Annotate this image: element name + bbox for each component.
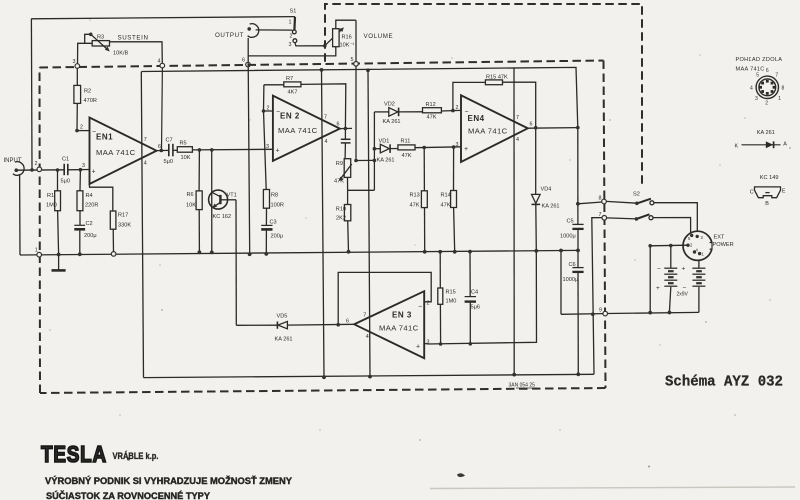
svg-text:VÝROBNÝ PODNIK SI VYHRADZUJE M: VÝROBNÝ PODNIK SI VYHRADZUJE MOŽNOSŤ ZME… xyxy=(45,475,292,486)
svg-text:4: 4 xyxy=(158,59,161,65)
svg-text:6: 6 xyxy=(158,144,161,150)
svg-text:C3: C3 xyxy=(270,220,277,226)
svg-text:47K: 47K xyxy=(427,115,437,121)
svg-text:7: 7 xyxy=(144,137,147,143)
svg-text:9: 9 xyxy=(599,308,602,314)
svg-text:330K: 330K xyxy=(118,223,131,229)
svg-text:R14: R14 xyxy=(441,193,451,199)
svg-text:C4: C4 xyxy=(471,290,478,296)
svg-text:6: 6 xyxy=(337,122,340,128)
svg-text:MAA 741C: MAA 741C xyxy=(379,324,419,333)
svg-text:+: + xyxy=(656,285,660,292)
svg-text:R11: R11 xyxy=(401,139,411,145)
svg-text:1M0: 1M0 xyxy=(46,203,57,209)
svg-text:47K: 47K xyxy=(402,153,412,159)
svg-text:KA 261: KA 261 xyxy=(757,130,775,136)
svg-text:7: 7 xyxy=(324,115,327,121)
svg-text:6: 6 xyxy=(346,319,349,325)
svg-text:OUTPUT: OUTPUT xyxy=(215,32,244,39)
svg-text:3: 3 xyxy=(289,42,292,48)
svg-text:3: 3 xyxy=(73,59,76,65)
svg-text:7: 7 xyxy=(775,72,778,78)
svg-text:KA 261: KA 261 xyxy=(383,119,401,125)
svg-text:R6: R6 xyxy=(187,192,194,198)
svg-text:POWER: POWER xyxy=(713,242,734,248)
svg-text:2: 2 xyxy=(765,100,768,106)
svg-text:−: − xyxy=(465,109,469,116)
svg-text:VD1: VD1 xyxy=(379,139,390,145)
svg-text:−: − xyxy=(418,304,422,311)
svg-text:10K⁻¹: 10K⁻¹ xyxy=(340,43,355,49)
svg-text:2: 2 xyxy=(427,301,430,307)
svg-text:EXT: EXT xyxy=(714,235,725,241)
svg-text:7: 7 xyxy=(363,313,366,319)
svg-text:R10: R10 xyxy=(336,207,346,213)
svg-text:2: 2 xyxy=(456,105,459,111)
svg-text:R15: R15 xyxy=(446,290,456,296)
svg-text:VD4: VD4 xyxy=(541,187,552,193)
svg-text:MAA 741C: MAA 741C xyxy=(278,126,318,135)
svg-text:200μ: 200μ xyxy=(84,233,97,239)
svg-text:200μ: 200μ xyxy=(271,234,284,240)
svg-text:R3: R3 xyxy=(97,35,104,41)
svg-text:4: 4 xyxy=(325,139,328,145)
svg-text:R15 47K: R15 47K xyxy=(486,75,508,81)
svg-text:E: E xyxy=(782,188,786,194)
svg-text:KA 261: KA 261 xyxy=(275,337,293,343)
svg-text:R13: R13 xyxy=(410,193,420,199)
svg-text:8: 8 xyxy=(599,196,602,202)
svg-text:4: 4 xyxy=(144,161,147,167)
svg-text:KA 261: KA 261 xyxy=(542,204,560,210)
svg-text:VT1: VT1 xyxy=(227,193,237,199)
svg-text:5: 5 xyxy=(351,57,354,63)
svg-text:VD2: VD2 xyxy=(384,102,395,108)
svg-text:POHĽAD ZDOLA: POHĽAD ZDOLA xyxy=(736,57,783,63)
svg-text:R5: R5 xyxy=(180,141,187,147)
svg-text:5: 5 xyxy=(756,72,759,78)
svg-text:EN1: EN1 xyxy=(96,133,113,142)
svg-text:4: 4 xyxy=(750,85,753,91)
svg-text:2x9V: 2x9V xyxy=(677,292,689,298)
svg-text:SUSTEIN: SUSTEIN xyxy=(118,35,149,42)
svg-text:R7: R7 xyxy=(286,76,293,82)
svg-text:10K: 10K xyxy=(181,155,191,161)
svg-text:S1: S1 xyxy=(290,9,297,15)
svg-text:VD5: VD5 xyxy=(277,314,288,320)
svg-text:6: 6 xyxy=(242,58,245,64)
svg-text:47K: 47K xyxy=(334,178,344,184)
svg-text:R16: R16 xyxy=(342,35,352,41)
svg-text:+: + xyxy=(464,146,468,153)
svg-text:INPUT: INPUT xyxy=(4,158,22,164)
svg-text:K: K xyxy=(735,143,739,149)
svg-text:R8: R8 xyxy=(271,193,278,199)
svg-text:220R: 220R xyxy=(85,203,98,209)
svg-text:KC 162: KC 162 xyxy=(213,214,232,220)
svg-text:2: 2 xyxy=(267,106,270,112)
svg-text:3: 3 xyxy=(266,144,269,150)
svg-text:4K7: 4K7 xyxy=(288,90,298,96)
svg-text:C2: C2 xyxy=(86,221,93,227)
svg-text:5μ6: 5μ6 xyxy=(471,305,480,311)
svg-text:VOLUME: VOLUME xyxy=(364,33,394,40)
svg-text:1000μ: 1000μ xyxy=(563,277,579,283)
svg-text:1M0: 1M0 xyxy=(446,299,457,305)
svg-text:5μ0: 5μ0 xyxy=(61,179,70,185)
svg-text:1: 1 xyxy=(778,96,781,102)
svg-text:A: A xyxy=(783,141,787,147)
svg-text:2: 2 xyxy=(290,34,293,40)
svg-text:R9: R9 xyxy=(336,161,343,167)
svg-text:−: − xyxy=(92,129,96,136)
svg-text:10K: 10K xyxy=(186,203,196,209)
svg-text:VRÁBLE k.p.: VRÁBLE k.p. xyxy=(113,451,159,462)
svg-text:C6: C6 xyxy=(569,262,576,268)
svg-text:MAA 741C: MAA 741C xyxy=(96,148,136,157)
svg-text:KA 261: KA 261 xyxy=(377,158,395,164)
svg-text:2K2: 2K2 xyxy=(336,216,346,222)
svg-text:+: + xyxy=(276,148,280,155)
svg-text:3: 3 xyxy=(427,340,430,346)
svg-text:4: 4 xyxy=(366,334,369,340)
svg-text:470R: 470R xyxy=(84,98,97,104)
svg-text:C: C xyxy=(750,190,754,196)
svg-text:6: 6 xyxy=(766,68,769,74)
svg-text:3AN 054 25: 3AN 054 25 xyxy=(509,383,536,389)
svg-text:7: 7 xyxy=(516,115,519,121)
svg-text:R4: R4 xyxy=(86,193,93,199)
svg-text:C5: C5 xyxy=(567,219,574,225)
svg-text:3: 3 xyxy=(755,96,758,102)
svg-text:100R: 100R xyxy=(271,203,284,209)
svg-text:B: B xyxy=(765,201,769,207)
svg-text:EN 3: EN 3 xyxy=(392,311,412,320)
svg-text:47K: 47K xyxy=(410,203,420,209)
svg-text:+: + xyxy=(416,344,420,351)
svg-text:1: 1 xyxy=(289,20,292,26)
svg-text:EN 2: EN 2 xyxy=(280,112,300,121)
svg-text:SÚČIASTOK ZA ROVNOCENNÉ TYPY: SÚČIASTOK ZA ROVNOCENNÉ TYPY xyxy=(46,490,210,500)
svg-text:5μ0: 5μ0 xyxy=(164,159,173,165)
svg-text:R2: R2 xyxy=(84,89,91,95)
svg-text:R12: R12 xyxy=(426,102,436,108)
svg-text:2: 2 xyxy=(80,125,83,131)
svg-text:MAA 741C: MAA 741C xyxy=(468,127,508,136)
svg-text:1000μ: 1000μ xyxy=(560,234,576,240)
svg-text:7: 7 xyxy=(599,212,602,218)
svg-text:+: + xyxy=(92,169,96,176)
svg-text:−: − xyxy=(683,285,687,292)
svg-text:6: 6 xyxy=(530,122,533,128)
svg-text:C1: C1 xyxy=(62,157,69,163)
svg-text:R17: R17 xyxy=(118,213,128,219)
svg-text:−: − xyxy=(657,266,661,273)
svg-text:4: 4 xyxy=(516,137,519,143)
svg-text:3: 3 xyxy=(456,142,459,148)
svg-text:R1: R1 xyxy=(47,193,54,199)
svg-text:MAA 741C: MAA 741C xyxy=(736,67,765,73)
svg-text:KC 149: KC 149 xyxy=(760,175,779,181)
svg-text:+: + xyxy=(682,266,686,273)
svg-text:10K/B: 10K/B xyxy=(113,51,129,57)
svg-text:S2: S2 xyxy=(633,192,640,198)
svg-text:−: − xyxy=(276,109,280,116)
svg-text:3: 3 xyxy=(82,163,85,169)
svg-text:8: 8 xyxy=(782,85,785,91)
svg-text:EN4: EN4 xyxy=(468,114,485,123)
svg-text:Schéma AYZ 032: Schéma AYZ 032 xyxy=(665,374,783,391)
svg-text:1: 1 xyxy=(35,248,38,254)
svg-text:2: 2 xyxy=(35,161,38,167)
svg-text:C7: C7 xyxy=(166,138,173,144)
svg-text:TESLA: TESLA xyxy=(41,441,107,467)
svg-text:47K: 47K xyxy=(441,203,451,209)
